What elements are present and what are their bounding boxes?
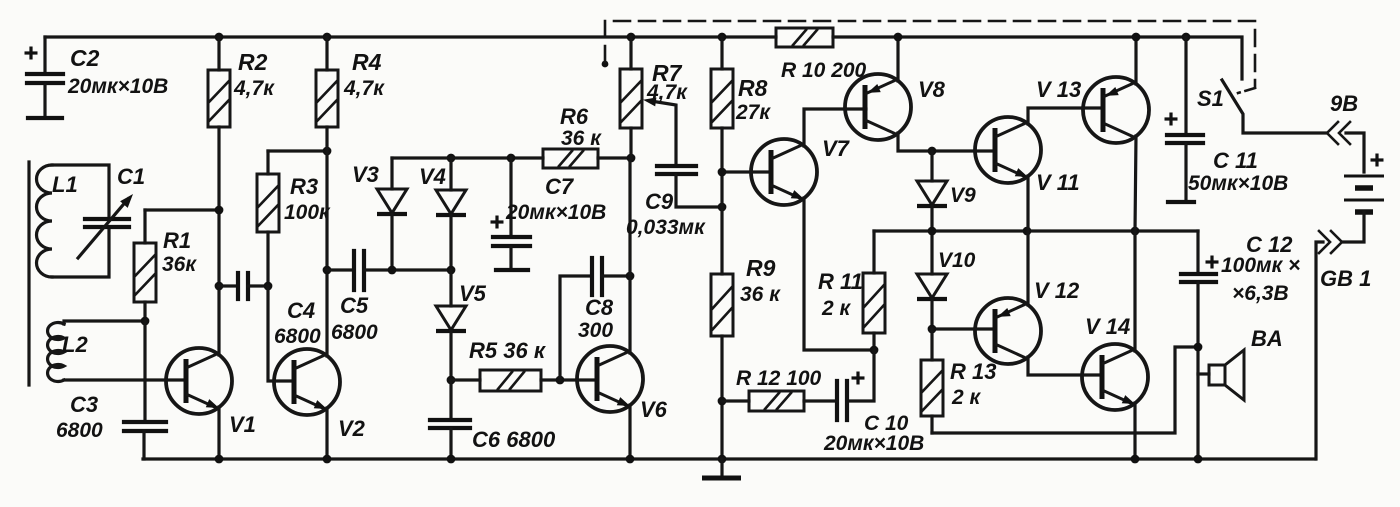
capacitor C6	[430, 380, 556, 463]
svg-text:V 13: V 13	[1036, 77, 1081, 102]
svg-text:V 14: V 14	[1085, 314, 1130, 339]
resistor R6	[543, 104, 631, 168]
svg-text:R2: R2	[238, 49, 268, 75]
wire R3 bottom to V2 base	[268, 286, 294, 381]
variable capacitor C1	[78, 164, 145, 258]
wire L2 top to R1 bottom	[64, 321, 145, 324]
battery GB1	[1320, 154, 1384, 292]
wire detector top rail	[392, 156, 543, 159]
svg-text:C3: C3	[70, 392, 98, 417]
svg-text:6800: 6800	[331, 321, 378, 344]
svg-text:C8: C8	[585, 295, 614, 320]
capacitor C3	[56, 321, 166, 459]
node V7 emitter / R11 / C10	[870, 346, 879, 355]
svg-text:36 к: 36 к	[561, 127, 602, 150]
node C12 bottom / R13 wire	[1194, 343, 1203, 352]
svg-text:R4: R4	[352, 49, 382, 75]
svg-text:9В: 9В	[1330, 91, 1358, 116]
diode V10	[917, 249, 976, 329]
capacitor C4	[219, 273, 321, 348]
capacitor C5	[323, 251, 451, 344]
svg-text:0,033мк: 0,033мк	[626, 216, 706, 239]
wire R3 top to R4 line	[268, 149, 327, 152]
node V6 base / C8 left	[556, 376, 565, 385]
svg-text:100к: 100к	[284, 201, 331, 224]
resistor R12	[718, 367, 837, 411]
node V5 / R5 / C6	[447, 376, 456, 385]
svg-text:L1: L1	[52, 172, 78, 197]
svg-text:R 11: R 11	[818, 269, 863, 294]
svg-text:27к: 27к	[735, 101, 771, 124]
svg-text:R1: R1	[163, 228, 191, 253]
resistor R11	[818, 231, 885, 350]
resistor R13	[921, 329, 996, 433]
connector X1 to battery plus	[1327, 91, 1364, 172]
wire bottom common rail	[143, 457, 1315, 460]
svg-text:C7: C7	[545, 174, 575, 199]
transistor V2	[274, 349, 366, 463]
svg-text:BA: BA	[1251, 326, 1283, 351]
svg-text:36к: 36к	[162, 253, 197, 276]
diode V4	[419, 154, 466, 275]
inductor L1	[37, 165, 110, 277]
diode V9	[917, 147, 976, 274]
capacitor C8	[560, 258, 634, 380]
svg-text:V4: V4	[419, 164, 446, 189]
wire top supply rail right segment	[833, 37, 1242, 79]
resistor R10	[776, 28, 867, 82]
svg-text:R9: R9	[746, 255, 776, 281]
svg-text:6800: 6800	[56, 419, 103, 442]
transistor V1	[166, 348, 256, 463]
svg-text:50мк×10В: 50мк×10В	[1188, 172, 1288, 195]
transistor V14	[1082, 231, 1148, 463]
svg-text:V 11: V 11	[1036, 170, 1080, 195]
svg-text:V3: V3	[352, 162, 379, 187]
capacitor C12	[1181, 231, 1300, 459]
wire R13 bottom to speaker node	[932, 347, 1198, 433]
transistor V6	[577, 158, 668, 463]
transistor V7	[751, 109, 872, 350]
capacitor C9	[626, 166, 726, 239]
diode V3	[352, 158, 407, 274]
svg-text:C1: C1	[117, 164, 145, 189]
node R6 right / V6 collector line	[627, 154, 636, 163]
svg-text:2 к: 2 к	[951, 386, 982, 409]
transistor V8	[845, 33, 992, 151]
connector X2 to battery minus	[1316, 231, 1342, 459]
resistor R4	[316, 33, 385, 356]
svg-text:S1: S1	[1197, 86, 1224, 111]
resistor R5	[451, 338, 597, 391]
svg-text:300: 300	[578, 319, 613, 342]
svg-text:V9: V9	[950, 184, 976, 207]
svg-text:4,7к: 4,7к	[233, 77, 275, 100]
potentiometer R7	[620, 33, 688, 166]
svg-text:C4: C4	[287, 298, 315, 323]
resistor R8	[711, 33, 771, 274]
capacitor C2	[25, 37, 169, 118]
node R3 bottom / C4 right	[264, 282, 273, 291]
capacitor C10	[823, 350, 924, 455]
transistor V13	[1036, 33, 1149, 231]
svg-text:6800: 6800	[274, 325, 321, 348]
resistor R3	[257, 151, 331, 286]
svg-text:R 13: R 13	[950, 359, 996, 384]
capacitor C7	[491, 154, 607, 270]
speaker BA	[1198, 326, 1283, 400]
svg-text:V 12: V 12	[1034, 278, 1080, 303]
ferrite rod core	[27, 162, 30, 385]
svg-text:100мк ×: 100мк ×	[1221, 254, 1300, 277]
wire R1 top to V1 collector node	[145, 208, 219, 211]
svg-text:36 к: 36 к	[740, 283, 781, 306]
inductor L2	[48, 323, 89, 382]
svg-text:20мк×10В: 20мк×10В	[505, 201, 606, 224]
svg-text:C5: C5	[340, 293, 369, 318]
wire L2 bottom to V1 base	[64, 378, 186, 381]
svg-text:GB 1: GB 1	[1320, 266, 1371, 291]
svg-text:R 12 100: R 12 100	[736, 367, 822, 390]
svg-text:4,7к: 4,7к	[646, 81, 688, 104]
ground symbol	[702, 455, 741, 478]
wire V7 base	[722, 170, 771, 173]
svg-text:×6,3В: ×6,3В	[1232, 282, 1289, 305]
svg-text:V10: V10	[938, 249, 976, 272]
transistor V11	[975, 108, 1103, 305]
resistor R2	[208, 33, 275, 210]
svg-text:C9: C9	[645, 189, 674, 214]
svg-text:V7: V7	[822, 136, 851, 161]
capacitor C11	[1165, 33, 1289, 202]
svg-text:V1: V1	[229, 412, 256, 437]
svg-text:R6: R6	[560, 104, 589, 129]
node R1/L2/C3	[141, 317, 150, 326]
svg-text:V6: V6	[640, 397, 668, 422]
svg-text:20мк×10В: 20мк×10В	[823, 432, 924, 455]
svg-text:20мк×10В: 20мк×10В	[67, 75, 168, 98]
svg-text:L2: L2	[62, 332, 88, 357]
wire output node	[874, 229, 1198, 232]
transistor V12	[975, 278, 1102, 375]
wire V1 collector line	[217, 210, 220, 355]
svg-text:V8: V8	[918, 77, 946, 102]
node V1 collector / R1	[215, 206, 224, 215]
resistor R1	[134, 210, 197, 321]
svg-text:C2: C2	[70, 45, 100, 71]
svg-text:R5 36 к: R5 36 к	[469, 338, 547, 363]
svg-text:4,7к: 4,7к	[343, 77, 385, 100]
svg-text:R8: R8	[738, 75, 768, 101]
svg-text:C6 6800: C6 6800	[472, 427, 556, 452]
resistor R9	[711, 255, 781, 459]
switch S1	[1197, 80, 1327, 133]
svg-text:V5: V5	[459, 281, 487, 306]
svg-text:2 к: 2 к	[821, 297, 852, 320]
wire V10 bottom to V12 base	[932, 327, 995, 330]
wire S1 mechanical link (dashed)	[602, 21, 1255, 93]
svg-text:C 11: C 11	[1213, 148, 1258, 173]
svg-text:R 10 200: R 10 200	[781, 59, 867, 82]
diode V5	[436, 270, 487, 380]
svg-text:V2: V2	[338, 416, 366, 441]
wire top supply rail left segment	[45, 35, 776, 38]
svg-text:R3: R3	[290, 174, 318, 199]
node C4 left	[215, 282, 224, 291]
